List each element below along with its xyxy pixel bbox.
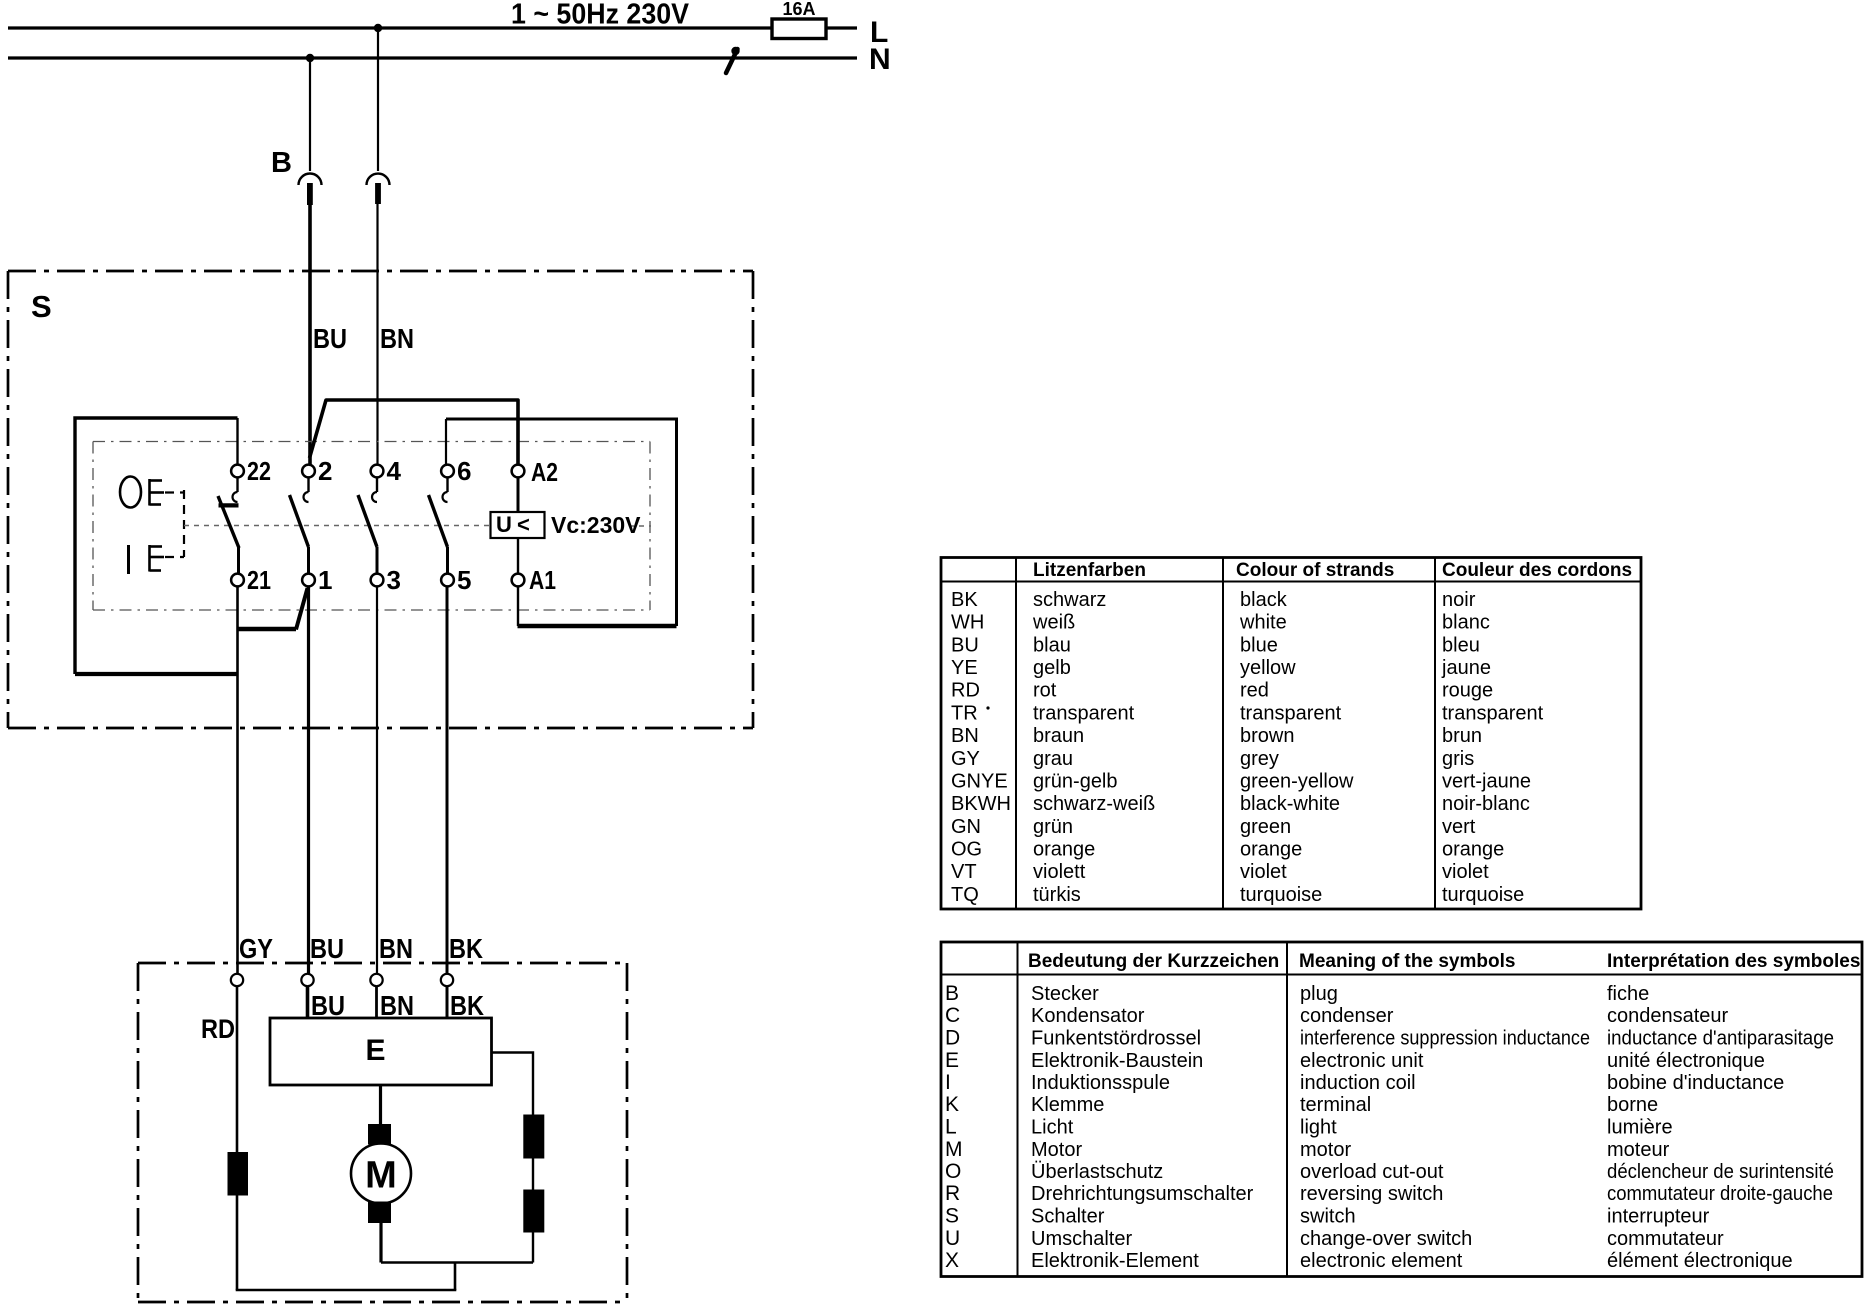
svg-text:motor: motor [1300, 1139, 1351, 1161]
terminal K on BU [301, 974, 313, 986]
svg-text:Meaning of the symbols: Meaning of the symbols [1299, 951, 1515, 972]
svg-text:K: K [945, 1093, 959, 1116]
svg-text:brun: brun [1442, 725, 1482, 747]
undervoltage release enclosure [446, 419, 677, 626]
svg-text:BK: BK [951, 589, 978, 611]
wire GY terminal to capacitor [236, 986, 239, 1152]
contact blade 4-3 [358, 478, 377, 574]
wire BN from plug to contact 4 [376, 203, 378, 465]
svg-text:E: E [945, 1049, 959, 1072]
jumper 21 to 1 [237, 588, 308, 630]
svg-text:BU: BU [310, 933, 344, 964]
svg-text:yellow: yellow [1240, 657, 1296, 679]
svg-text:green-yellow: green-yellow [1240, 770, 1354, 792]
terminal 4 [371, 456, 402, 486]
svg-text:schwarz-weiß: schwarz-weiß [1033, 793, 1155, 815]
svg-text:N: N [869, 43, 891, 76]
svg-text:Licht: Licht [1031, 1117, 1074, 1139]
svg-text:U: U [496, 512, 512, 537]
svg-text:2: 2 [318, 456, 332, 486]
svg-text:noir: noir [1442, 589, 1476, 611]
svg-text:Induktionsspule: Induktionsspule [1031, 1072, 1170, 1094]
svg-text:orange: orange [1442, 839, 1504, 861]
svg-text:vert: vert [1442, 816, 1476, 838]
svg-text:inductance d'antiparasitage: inductance d'antiparasitage [1607, 1028, 1834, 1050]
wire BU down from terminal 1 [307, 587, 310, 977]
terminal K on BN [370, 974, 382, 986]
contact blade 2-1 [290, 478, 309, 574]
plug B socket contact left [299, 174, 322, 186]
svg-text:moteur: moteur [1607, 1139, 1670, 1161]
svg-text:weiß: weiß [1032, 612, 1075, 634]
svg-text:red: red [1240, 680, 1269, 702]
svg-text:BN: BN [951, 725, 979, 747]
svg-text:RD: RD [951, 680, 980, 702]
svg-text:BK: BK [450, 990, 484, 1021]
svg-text:22: 22 [247, 456, 271, 486]
contact blade 6-5 [429, 478, 448, 574]
wire node 2 to coil A2 [310, 400, 519, 465]
actuator I latch bracket [150, 545, 165, 572]
svg-text:Litzenfarben: Litzenfarben [1033, 560, 1146, 581]
wire capacitor chain to bottom rail [532, 1233, 534, 1263]
svg-text:4: 4 [387, 456, 402, 486]
svg-text:GY: GY [239, 933, 273, 964]
electronic unit E [270, 1018, 492, 1085]
svg-text:bleu: bleu [1442, 634, 1480, 656]
svg-text:OG: OG [951, 839, 982, 861]
switch tick on N line [726, 47, 740, 73]
svg-text:interference suppression induc: interference suppression inductance [1300, 1028, 1590, 1050]
wire BN down from terminal 3 [376, 587, 378, 977]
wire bottom rail motor to capacitors [381, 1261, 533, 1264]
svg-text:BU: BU [951, 634, 979, 656]
svg-text:WH: WH [951, 612, 984, 634]
svg-text:unité électronique: unité électronique [1607, 1050, 1765, 1072]
svg-text:gelb: gelb [1033, 657, 1071, 679]
capacitor C upper [523, 1115, 544, 1159]
svg-text:electronic unit: electronic unit [1300, 1050, 1424, 1072]
svg-text:RD: RD [201, 1014, 235, 1044]
svg-text:electronic element: electronic element [1300, 1250, 1463, 1272]
svg-text:fiche: fiche [1607, 983, 1649, 1005]
wire E to capacitor chain [492, 1053, 534, 1115]
svg-text:lumière: lumière [1607, 1117, 1673, 1139]
svg-text:Stecker: Stecker [1031, 983, 1099, 1005]
svg-text:Drehrichtungsumschalter: Drehrichtungsumschalter [1031, 1183, 1254, 1205]
terminal 2 [302, 456, 332, 486]
undervoltage coil U< [491, 512, 545, 538]
svg-text:grey: grey [1240, 748, 1279, 770]
svg-text:GY: GY [951, 748, 980, 770]
wire BU terminal to E [306, 986, 310, 1018]
terminal 3 [371, 565, 401, 595]
motor M [351, 1144, 411, 1204]
svg-text:overload cut-out: overload cut-out [1300, 1161, 1444, 1183]
svg-text:grau: grau [1033, 748, 1073, 770]
svg-text:white: white [1239, 612, 1287, 634]
svg-text:schwarz: schwarz [1033, 589, 1106, 611]
svg-text:16A: 16A [782, 0, 815, 19]
svg-text:rouge: rouge [1442, 680, 1493, 702]
svg-text:brown: brown [1240, 725, 1294, 747]
svg-text:blau: blau [1033, 634, 1071, 656]
svg-text:orange: orange [1240, 839, 1302, 861]
wire motor to bottom rail [379, 1223, 382, 1263]
svg-text:Klemme: Klemme [1031, 1094, 1104, 1116]
svg-text:M: M [945, 1138, 963, 1161]
svg-text:turquoise: turquoise [1442, 884, 1524, 906]
svg-text:GNYE: GNYE [951, 770, 1008, 792]
svg-text:Colour of strands: Colour of strands [1236, 560, 1394, 581]
plug B pin right [375, 183, 381, 204]
svg-text:BK: BK [449, 933, 483, 964]
svg-text:L: L [945, 1116, 957, 1139]
svg-text:<: < [517, 512, 530, 537]
wire GY down from mechanism [236, 674, 239, 976]
svg-text:switch: switch [1300, 1206, 1356, 1228]
wire bottom rail junction down [454, 1263, 457, 1291]
svg-text:bobine d'inductance: bobine d'inductance [1607, 1072, 1784, 1094]
svg-text:black-white: black-white [1240, 793, 1340, 815]
svg-text:terminal: terminal [1300, 1094, 1371, 1116]
svg-text:Umschalter: Umschalter [1031, 1228, 1132, 1250]
svg-text:Funkentstördrossel: Funkentstördrossel [1031, 1028, 1201, 1050]
svg-text:B: B [945, 982, 959, 1005]
svg-text:green: green [1240, 816, 1291, 838]
svg-text:black: black [1240, 589, 1288, 611]
actuator O latch bracket [150, 479, 165, 506]
svg-text:BN: BN [379, 933, 413, 964]
svg-text:borne: borne [1607, 1094, 1658, 1116]
motor brush bottom [368, 1202, 391, 1224]
svg-text:Elektronik-Element: Elektronik-Element [1031, 1250, 1199, 1272]
svg-text:Bedeutung der Kurzzeichen: Bedeutung der Kurzzeichen [1028, 951, 1279, 972]
svg-text:S: S [31, 289, 52, 324]
svg-text:Schalter: Schalter [1031, 1206, 1105, 1228]
svg-text:jaune: jaune [1441, 657, 1491, 679]
svg-text:violet: violet [1442, 861, 1489, 883]
appliance enclosure dash-dot box [138, 963, 627, 1302]
terminal K on BK [441, 974, 453, 986]
junction on L line [374, 24, 382, 32]
wire bottom return to GY [236, 1289, 457, 1292]
svg-text:gris: gris [1442, 748, 1474, 770]
svg-text:B: B [271, 147, 292, 179]
wire E to motor [379, 1085, 382, 1124]
svg-text:R: R [945, 1182, 960, 1205]
svg-text:induction coil: induction coil [1300, 1072, 1416, 1094]
svg-text:Motor: Motor [1031, 1139, 1082, 1161]
terminal 5 [441, 565, 471, 595]
actuator O off button [120, 477, 141, 508]
svg-text:O: O [945, 1160, 961, 1183]
terminal 22 [231, 456, 271, 486]
svg-text:transparent: transparent [1033, 702, 1135, 724]
wire from L junction to plug right pin [377, 28, 379, 171]
wire mechanism box to terminal 22 [236, 418, 238, 465]
svg-text:Elektronik-Baustein: Elektronik-Baustein [1031, 1050, 1203, 1072]
plug B pin left [307, 183, 313, 205]
svg-text:E: E [365, 1034, 385, 1067]
wire A1 to enclosure bottom [517, 587, 519, 627]
switch S enclosure dash-dot box [8, 271, 753, 728]
svg-text:TR: TR [951, 702, 978, 724]
svg-text:Vc:230V: Vc:230V [551, 512, 641, 538]
wire BU from plug to contact 2 [308, 204, 312, 465]
wire left capacitor down [236, 1196, 239, 1291]
svg-text:grün: grün [1033, 816, 1073, 838]
terminal A1 [512, 565, 556, 595]
svg-text:grün-gelb: grün-gelb [1033, 770, 1118, 792]
svg-text:A2: A2 [531, 457, 558, 487]
svg-text:vert-jaune: vert-jaune [1442, 770, 1531, 792]
svg-text:light: light [1300, 1117, 1337, 1139]
svg-text:noir-blanc: noir-blanc [1442, 793, 1530, 815]
svg-text:BN: BN [380, 323, 414, 354]
svg-text:élément électronique: élément électronique [1607, 1250, 1793, 1272]
wire between capacitors [532, 1159, 534, 1190]
svg-text:BU: BU [311, 990, 345, 1021]
svg-text:reversing switch: reversing switch [1300, 1183, 1443, 1205]
svg-text:I: I [945, 1071, 951, 1094]
svg-text:D: D [945, 1027, 960, 1050]
svg-text:orange: orange [1033, 839, 1095, 861]
table meaning of symbols [941, 942, 1862, 1277]
table colours of strands [941, 558, 1641, 910]
actuator I on button [127, 545, 130, 574]
svg-text:BN: BN [380, 990, 414, 1021]
svg-text:change-over switch: change-over switch [1300, 1228, 1472, 1250]
terminal 1 [302, 565, 332, 595]
wire L supply line [8, 26, 857, 29]
svg-text:condenser: condenser [1300, 1005, 1394, 1027]
svg-text:Überlastschutz: Überlastschutz [1031, 1161, 1163, 1183]
svg-text:transparent: transparent [1442, 702, 1544, 724]
wire coil to A1 [517, 538, 519, 574]
wire below 21 to mechanism corner [236, 587, 239, 675]
terminal 6 [441, 456, 471, 486]
svg-text:violett: violett [1033, 861, 1086, 883]
capacitor C left on GY [228, 1152, 249, 1196]
motor brush top [368, 1124, 391, 1145]
svg-text:1 ~ 50Hz 230V: 1 ~ 50Hz 230V [511, 0, 690, 31]
svg-text:interrupteur: interrupteur [1607, 1206, 1710, 1228]
svg-text:turquoise: turquoise [1240, 884, 1322, 906]
wire BK down from terminal 5 [446, 587, 449, 977]
svg-text:A1: A1 [529, 565, 556, 595]
svg-text:M: M [365, 1155, 397, 1197]
svg-text:Interprétation des symboles: Interprétation des symboles [1607, 951, 1860, 972]
svg-text:X: X [945, 1249, 959, 1272]
svg-text:commutateur droite-gauche: commutateur droite-gauche [1607, 1183, 1833, 1205]
plug B socket contact right [367, 174, 390, 185]
svg-text:GN: GN [951, 816, 981, 838]
svg-text:TQ: TQ [951, 884, 979, 906]
svg-text:türkis: türkis [1033, 884, 1081, 906]
junction on N line [306, 54, 314, 62]
scan dot after TR [986, 706, 989, 709]
svg-text:violet: violet [1240, 861, 1287, 883]
wire BN terminal to E [375, 986, 378, 1018]
svg-text:S: S [945, 1205, 959, 1228]
svg-text:condensateur: condensateur [1607, 1005, 1729, 1027]
svg-text:braun: braun [1033, 725, 1084, 747]
switch mechanism enclosure [75, 418, 238, 674]
svg-text:1: 1 [318, 565, 332, 595]
svg-text:BU: BU [313, 323, 347, 354]
svg-text:plug: plug [1300, 983, 1338, 1005]
wire BK terminal to E [446, 986, 449, 1018]
wire N supply line [8, 56, 857, 59]
svg-text:VT: VT [951, 861, 977, 883]
svg-text:rot: rot [1033, 680, 1057, 702]
svg-text:21: 21 [247, 565, 271, 595]
svg-text:C: C [945, 1004, 960, 1027]
capacitor C lower [523, 1190, 544, 1233]
wire from N junction to plug left pin [309, 58, 311, 171]
mechanical linkage dashed line [184, 525, 651, 528]
svg-text:transparent: transparent [1240, 702, 1342, 724]
terminal K on GY [231, 974, 243, 986]
contact blade 22-21 NC [218, 478, 239, 574]
svg-text:5: 5 [457, 565, 471, 595]
svg-text:BKWH: BKWH [951, 793, 1011, 815]
svg-text:U: U [945, 1227, 960, 1250]
svg-text:YE: YE [951, 657, 978, 679]
svg-text:3: 3 [387, 565, 401, 595]
wire UV box edge to terminal 6 [445, 419, 447, 465]
svg-text:6: 6 [457, 456, 471, 486]
terminal A2 [512, 457, 558, 487]
trip unit inner dash-dot boundary [93, 442, 650, 611]
svg-text:blanc: blanc [1442, 612, 1490, 634]
svg-text:Couleur des cordons: Couleur des cordons [1442, 560, 1632, 581]
svg-text:déclencheur de surintensité: déclencheur de surintensité [1607, 1161, 1834, 1183]
svg-text:commutateur: commutateur [1607, 1228, 1724, 1250]
terminal 21 [231, 565, 271, 595]
trip linkage dashes [165, 490, 184, 557]
fuse F1 16A [772, 0, 826, 39]
svg-text:blue: blue [1240, 634, 1278, 656]
svg-text:Kondensator: Kondensator [1031, 1005, 1145, 1027]
wire A2 to coil [517, 478, 520, 513]
